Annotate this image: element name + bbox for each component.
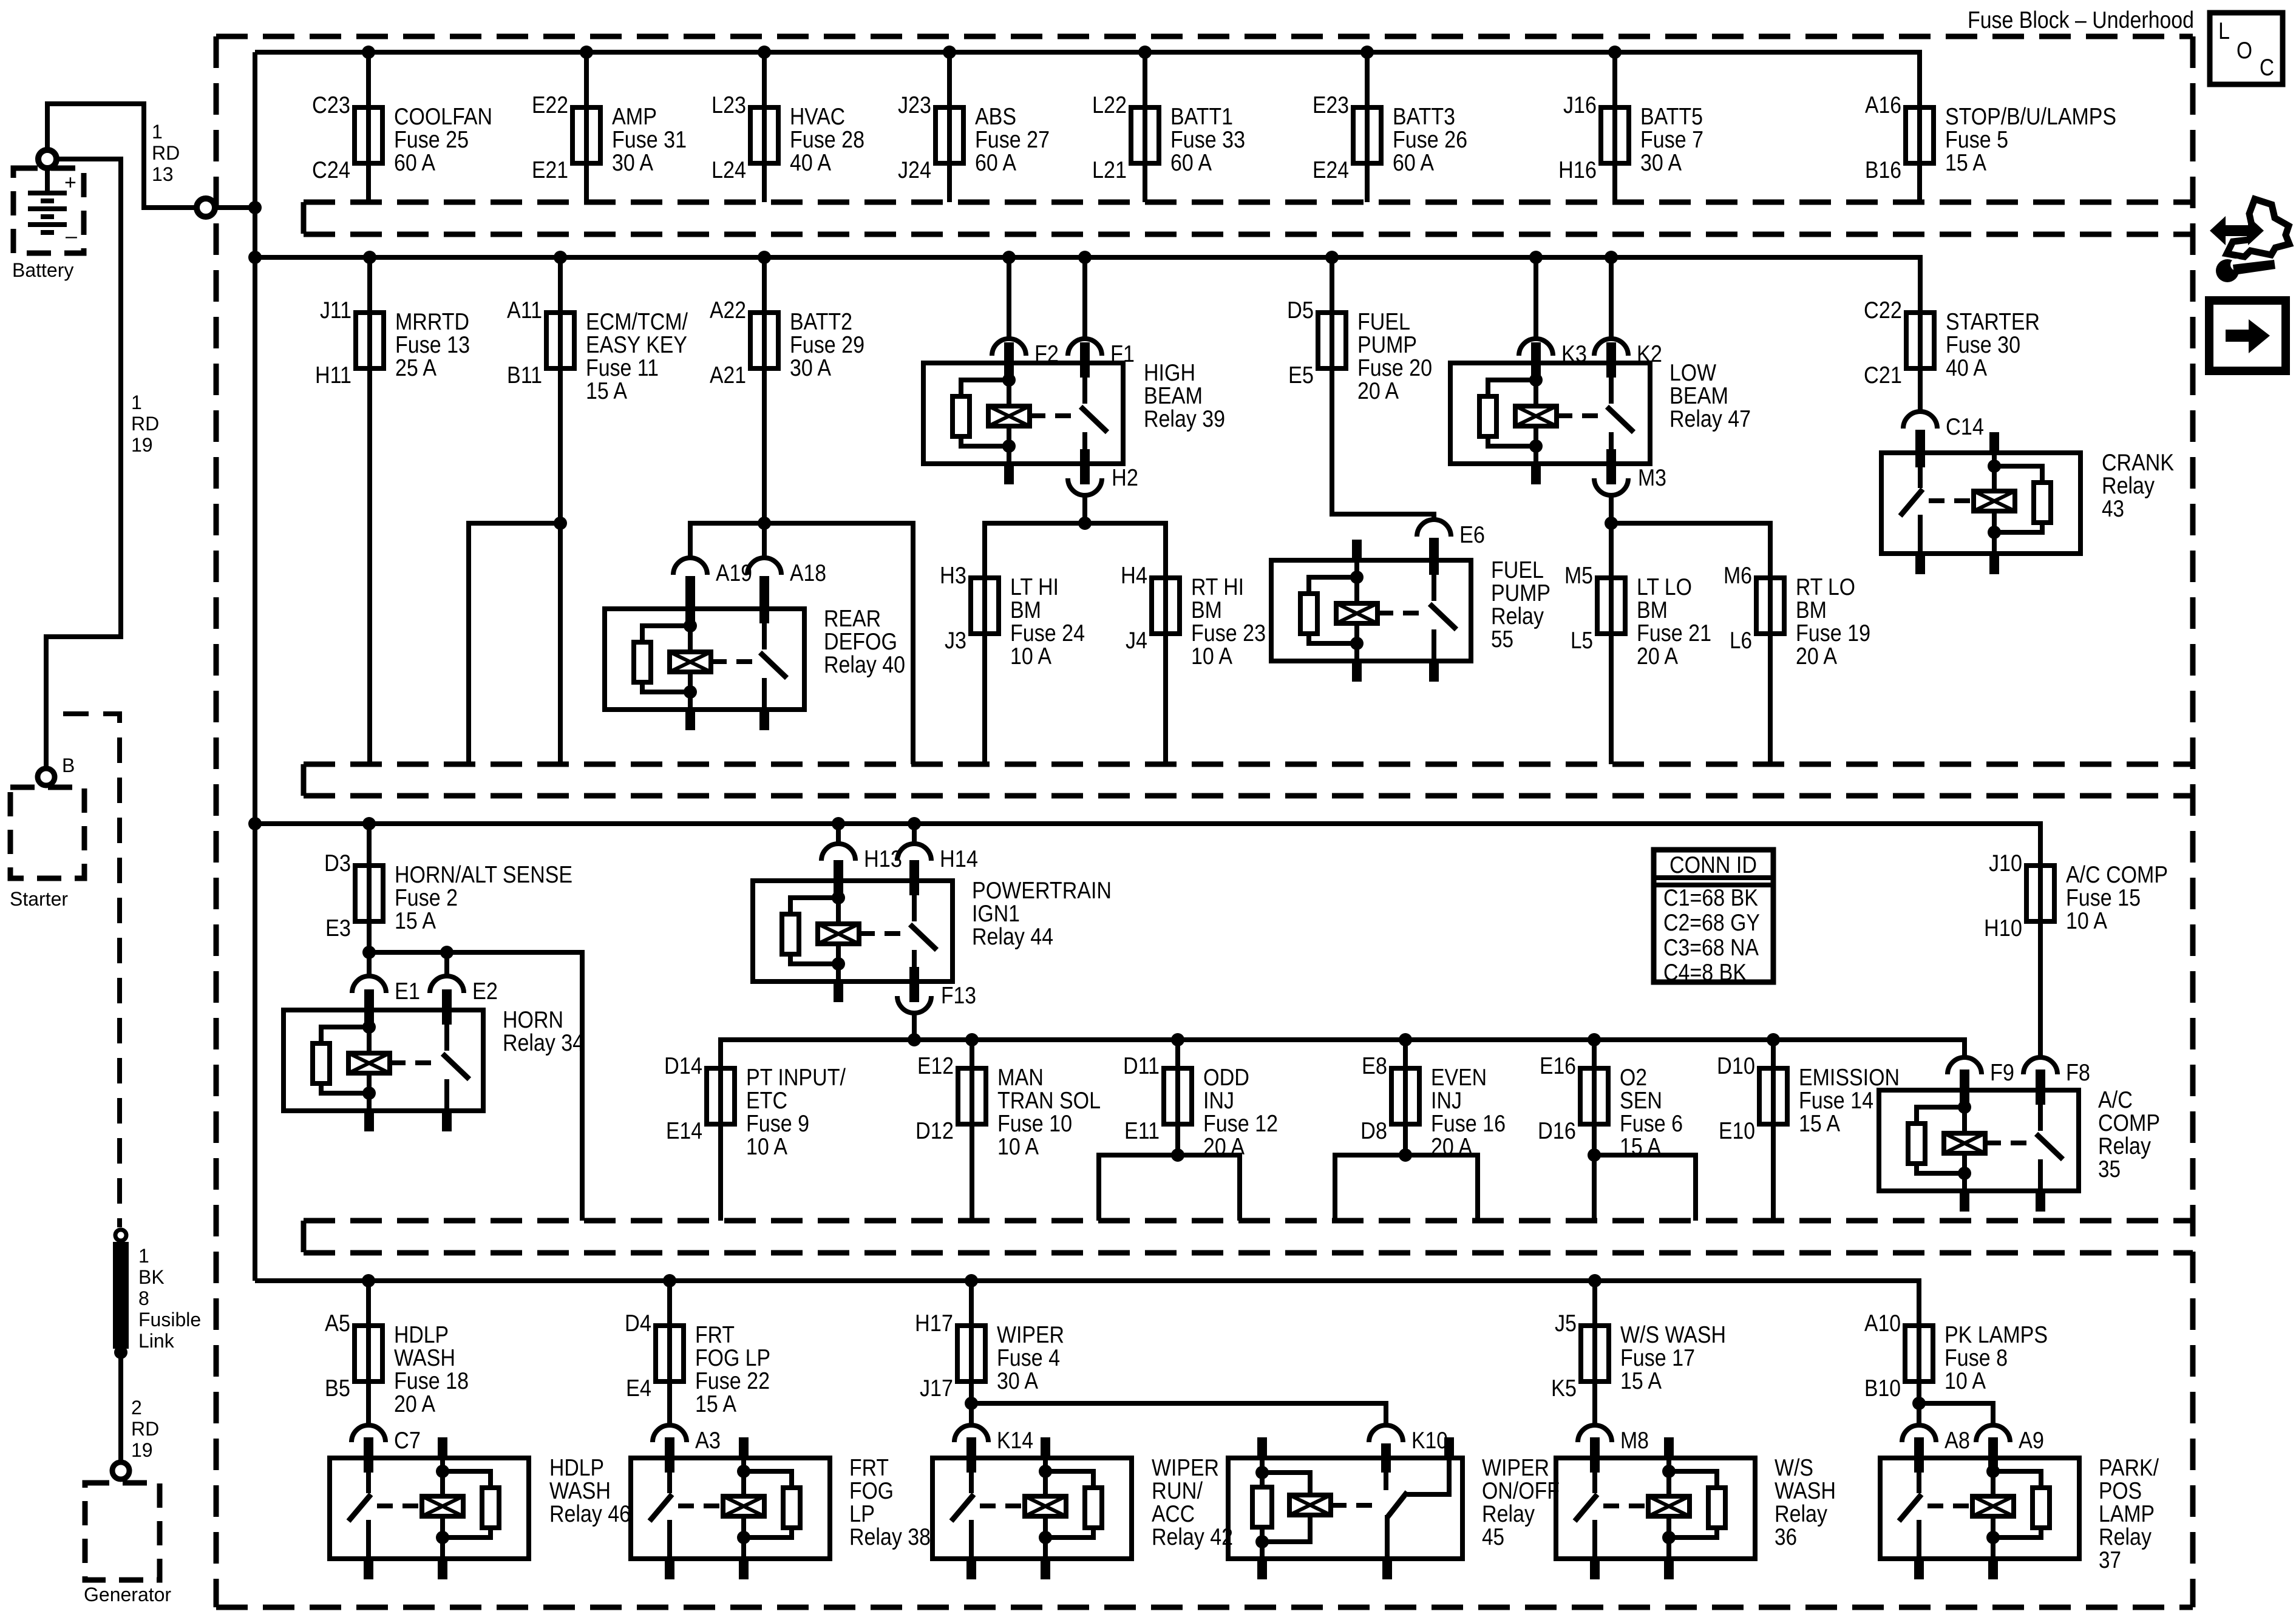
svg-text:Fuse 19: Fuse 19	[1796, 620, 1870, 646]
junction	[1588, 1274, 1601, 1287]
svg-text:A/C COMP: A/C COMP	[2066, 862, 2168, 888]
svg-text:E22: E22	[532, 92, 568, 118]
fuse Fuse 26 BATT3	[1313, 52, 1467, 202]
svg-text:PK LAMPS: PK LAMPS	[1944, 1322, 2048, 1348]
fuse body	[936, 107, 963, 163]
wire	[1917, 107, 1922, 202]
wire J17 to relays	[969, 1384, 974, 1428]
svg-text:E2: E2	[472, 978, 498, 1005]
fuse Fuse 17 W/S WASH	[1551, 1281, 1726, 1402]
svg-text:H10: H10	[1984, 915, 2022, 941]
wire	[1592, 1040, 1597, 1221]
fuse body	[1906, 313, 1934, 368]
svg-text:BM: BM	[1191, 597, 1222, 623]
svg-text:ECM/TCM/: ECM/TCM/	[586, 309, 688, 335]
svg-text:H14: H14	[940, 846, 978, 872]
svg-text:L5: L5	[1571, 628, 1593, 654]
svg-text:C22: C22	[1864, 297, 1902, 324]
svg-text:Relay 40: Relay 40	[824, 652, 905, 678]
relay box	[1556, 1458, 1755, 1559]
fuse Fuse 5 STOP/B/U/LAMPS	[1865, 92, 2116, 202]
junction	[362, 817, 376, 830]
svg-text:FOG LP: FOG LP	[695, 1345, 770, 1371]
svg-text:15 A: 15 A	[1945, 150, 1986, 176]
wire	[912, 1012, 917, 1040]
svg-text:BATT1: BATT1	[1170, 104, 1233, 130]
svg-text:RD: RD	[131, 1418, 159, 1440]
relay switch	[2038, 1090, 2043, 1131]
wire	[762, 257, 767, 368]
relay box	[1880, 1458, 2079, 1559]
svg-text:CONN ID: CONN ID	[1669, 852, 1757, 878]
svg-text:A22: A22	[710, 297, 746, 324]
fuse Fuse 16 EVEN INJ	[1360, 1040, 1506, 1160]
svg-text:Starter: Starter	[10, 888, 68, 910]
fuse block bus-bar strip 3 (dashed)	[304, 1221, 2193, 1253]
fusible link 1 BK 8	[113, 1242, 129, 1349]
junction	[362, 946, 376, 959]
svg-text:Fuse 10: Fuse 10	[997, 1111, 1072, 1137]
svg-text:LOW: LOW	[1669, 360, 1716, 386]
svg-text:FRT: FRT	[695, 1322, 735, 1348]
svg-text:HVAC: HVAC	[790, 104, 845, 130]
svg-text:PUMP: PUMP	[1357, 332, 1417, 358]
svg-text:TRAN SOL: TRAN SOL	[997, 1088, 1101, 1114]
svg-text:WASH: WASH	[394, 1345, 455, 1371]
relay coil	[1043, 1458, 1048, 1471]
connector K2	[1594, 257, 1662, 378]
svg-text:D8: D8	[1360, 1118, 1387, 1144]
generator dashed box	[85, 1483, 160, 1580]
svg-text:SEN: SEN	[1620, 1088, 1662, 1114]
svg-text:C2=68 GY: C2=68 GY	[1663, 910, 1760, 936]
svg-text:DEFOG: DEFOG	[824, 629, 897, 655]
wire	[1592, 1384, 1597, 1428]
coil-switch link	[1603, 1503, 1648, 1508]
relay box	[605, 609, 804, 710]
wire	[1609, 578, 1614, 764]
relay box	[1450, 363, 1650, 464]
connector A8	[1902, 1425, 1970, 1473]
svg-text:E8: E8	[1362, 1053, 1387, 1079]
fuse block bus-bar strip 1 (dashed)	[304, 202, 2193, 234]
svg-text:L23: L23	[712, 92, 746, 118]
coil-switch link	[1377, 611, 1428, 615]
svg-text:Fuse 12: Fuse 12	[1203, 1111, 1278, 1137]
junction	[1605, 251, 1618, 264]
fuse body	[1597, 578, 1625, 634]
svg-text:C21: C21	[1864, 362, 1902, 388]
junction	[1325, 251, 1339, 264]
svg-text:E10: E10	[1719, 1118, 1755, 1144]
svg-text:40 A: 40 A	[790, 150, 831, 176]
fuse block bus-bar strip 2 (dashed)	[304, 764, 2193, 796]
svg-text:Relay: Relay	[2102, 473, 2155, 499]
svg-text:30 A: 30 A	[997, 1368, 1038, 1394]
wire A21 to rear defog feed rail	[762, 367, 767, 523]
svg-text:E21: E21	[532, 157, 568, 183]
svg-text:K5: K5	[1551, 1375, 1577, 1402]
svg-text:C: C	[2260, 55, 2274, 81]
svg-text:H11: H11	[315, 362, 352, 388]
fuse body	[1601, 107, 1629, 163]
connector M8	[1578, 1425, 1649, 1473]
wire	[1365, 52, 1370, 202]
relay coil	[1962, 1090, 1967, 1133]
svg-text:M5: M5	[1564, 563, 1593, 589]
svg-text:Relay 46: Relay 46	[549, 1501, 631, 1527]
fuse Fuse 18 HDLP WASH	[325, 1281, 469, 1417]
relay switch	[1432, 560, 1436, 601]
fuse Fuse 13 MRRTD	[315, 257, 470, 764]
wire	[667, 1384, 672, 1428]
relay coil	[367, 1010, 372, 1053]
wire	[1592, 1281, 1597, 1381]
junction	[1767, 1033, 1780, 1046]
svg-text:40 A: 40 A	[1946, 355, 1987, 381]
svg-text:20 A: 20 A	[1796, 643, 1837, 670]
relay resistor	[1708, 1488, 1725, 1528]
fuse Fuse 23 RT HI BM	[1121, 563, 1266, 764]
svg-text:RT LO: RT LO	[1796, 574, 1855, 600]
svg-text:1: 1	[152, 121, 163, 143]
relay box	[923, 363, 1123, 464]
svg-text:60 A: 60 A	[1393, 150, 1434, 176]
fuse body	[750, 313, 778, 368]
fuse body	[355, 107, 382, 163]
wire	[558, 257, 563, 368]
wire low-beam output rail	[1611, 523, 1770, 577]
svg-text:RUN/: RUN/	[1152, 1478, 1203, 1504]
svg-text:Relay: Relay	[2099, 1524, 2152, 1550]
row3 switched rail (F13 output)	[721, 1040, 1965, 1068]
svg-text:19: 19	[131, 1439, 153, 1461]
svg-text:D4: D4	[625, 1310, 651, 1337]
fuse body	[1353, 107, 1381, 163]
fuse body	[1152, 578, 1180, 634]
junction	[965, 1033, 979, 1046]
svg-text:FUEL: FUEL	[1357, 309, 1410, 335]
svg-text:E14: E14	[666, 1118, 702, 1144]
svg-text:O: O	[2237, 38, 2252, 64]
fuse Fuse 27 ABS	[898, 52, 1050, 202]
svg-text:13: 13	[152, 163, 174, 185]
fuse body	[355, 1326, 382, 1381]
svg-text:Fuse 27: Fuse 27	[975, 127, 1050, 153]
fuse body	[1131, 107, 1159, 163]
svg-text:Fuse 31: Fuse 31	[612, 127, 687, 153]
fuse body	[2026, 866, 2054, 921]
LOC callout box	[2210, 13, 2283, 84]
fuse body	[1164, 1068, 1192, 1124]
fuse Fuse 24 LT HI BM	[940, 563, 1085, 764]
svg-text:D3: D3	[324, 850, 351, 876]
coil-switch link	[1557, 413, 1605, 418]
svg-text:H17: H17	[915, 1310, 953, 1337]
svg-text:WIPER: WIPER	[997, 1322, 1064, 1348]
svg-text:J4: J4	[1126, 628, 1147, 654]
relay coil	[440, 1458, 445, 1471]
junction	[1360, 46, 1374, 59]
svg-text:D16: D16	[1538, 1118, 1576, 1144]
svg-text:L22: L22	[1092, 92, 1127, 118]
svg-text:10 A: 10 A	[997, 1134, 1039, 1160]
svg-text:30 A: 30 A	[612, 150, 653, 176]
relay REAR DEFOG Relay 40	[605, 588, 905, 730]
svg-text:ON/OFF: ON/OFF	[1482, 1478, 1560, 1504]
svg-text:30 A: 30 A	[1640, 150, 1682, 176]
coil-switch link	[377, 1503, 422, 1508]
coil-switch link	[980, 1503, 1025, 1508]
relay resistor	[482, 1488, 499, 1528]
relay box	[1271, 560, 1471, 661]
connector A19	[673, 558, 752, 623]
relay resistor	[1908, 1124, 1925, 1164]
wire H10 to F8	[2038, 924, 2043, 1059]
svg-text:60 A: 60 A	[975, 150, 1016, 176]
wire	[762, 52, 767, 202]
junction	[362, 1274, 375, 1287]
svg-text:–: –	[66, 225, 77, 248]
svg-text:F8: F8	[2066, 1060, 2090, 1086]
relay coil	[1533, 363, 1538, 406]
fuse body	[971, 578, 999, 634]
svg-text:37: 37	[2099, 1547, 2121, 1573]
junction	[1399, 1033, 1412, 1046]
svg-text:20 A: 20 A	[1357, 378, 1399, 404]
svg-text:8: 8	[138, 1287, 149, 1309]
relay switch	[366, 1458, 371, 1493]
svg-text:FRT: FRT	[849, 1455, 889, 1481]
wire	[969, 1281, 974, 1381]
fuse Fuse 6 O2 SEN	[1538, 1040, 1683, 1221]
relay resistor	[2034, 483, 2051, 523]
svg-text:E3: E3	[325, 915, 351, 941]
main feed bus (left vertical)	[253, 52, 257, 1281]
relay coil	[836, 881, 841, 924]
fuse Fuse 11 ECM/TCM/EASY KEY	[507, 257, 688, 404]
fuse Fuse 2 HORN/ALT SENSE	[324, 824, 572, 941]
wire	[1918, 313, 1923, 368]
svg-text:Fuse 20: Fuse 20	[1357, 355, 1432, 381]
svg-text:10 A: 10 A	[746, 1134, 787, 1160]
fuse body	[572, 107, 600, 163]
svg-text:ETC: ETC	[746, 1088, 787, 1114]
wire	[367, 257, 372, 764]
svg-text:Fuse 29: Fuse 29	[790, 332, 864, 358]
wire	[1330, 257, 1334, 368]
svg-text:POS: POS	[2099, 1478, 2142, 1504]
wire	[1612, 52, 1617, 202]
fuse Fuse 31 AMP	[532, 52, 687, 202]
svg-text:D5: D5	[1287, 297, 1314, 324]
svg-text:E5: E5	[1288, 362, 1314, 388]
relay box	[753, 881, 953, 981]
wire	[667, 1281, 672, 1381]
junction	[965, 1274, 978, 1287]
wire	[584, 52, 589, 202]
svg-text:Fuse 11: Fuse 11	[586, 355, 659, 381]
svg-text:REAR: REAR	[824, 606, 881, 632]
svg-text:POWERTRAIN: POWERTRAIN	[972, 878, 1112, 904]
svg-text:D11: D11	[1123, 1053, 1160, 1079]
svg-text:L24: L24	[712, 157, 746, 183]
relay box	[1879, 1090, 2079, 1191]
svg-text:M8: M8	[1620, 1428, 1649, 1454]
fuse Fuse 8 PK LAMPS	[1864, 1310, 2048, 1402]
junction	[1912, 1397, 1926, 1410]
CONN ID table	[1654, 850, 1773, 986]
junction	[943, 46, 956, 59]
svg-text:STOP/B/U/LAMPS: STOP/B/U/LAMPS	[1945, 104, 2116, 130]
starter B terminal ring	[38, 768, 55, 785]
svg-text:A16: A16	[1865, 92, 1901, 118]
junction	[114, 1346, 127, 1359]
fuse body	[1906, 107, 1934, 163]
coil-switch link	[678, 1503, 723, 1508]
svg-text:CRANK: CRANK	[2102, 450, 2174, 476]
row3 supply bus	[255, 824, 2040, 866]
svg-text:15 A: 15 A	[1620, 1368, 1662, 1394]
fuse Fuse 33 BATT1	[1092, 52, 1245, 202]
arrow-in-box icon	[2209, 300, 2286, 371]
svg-text:L21: L21	[1092, 157, 1127, 183]
svg-text:Fuse 15: Fuse 15	[2066, 885, 2141, 911]
svg-text:F13: F13	[941, 983, 976, 1009]
fuse Fuse 7 BATT5	[1558, 52, 1703, 202]
relay switch	[1592, 1458, 1597, 1493]
fuse body	[355, 866, 383, 921]
svg-text:RD: RD	[131, 413, 159, 435]
relay coil	[741, 1458, 746, 1471]
fuse body	[1581, 1326, 1609, 1381]
junction	[1171, 1033, 1184, 1046]
connector K10	[1369, 1425, 1448, 1473]
svg-text:E1: E1	[395, 978, 420, 1005]
wire high-beam output rail	[985, 523, 1166, 577]
wire	[1609, 494, 1614, 523]
svg-text:Relay 38: Relay 38	[849, 1524, 931, 1550]
junction	[965, 1397, 978, 1410]
svg-text:C7: C7	[394, 1428, 421, 1454]
relay LOW BEAM Relay 47	[1450, 342, 1751, 484]
svg-text:HORN/ALT SENSE: HORN/ALT SENSE	[395, 862, 572, 888]
svg-text:RT HI: RT HI	[1191, 574, 1244, 600]
svg-text:60 A: 60 A	[394, 150, 435, 176]
svg-text:AMP: AMP	[612, 104, 657, 130]
svg-text:A11: A11	[507, 297, 542, 324]
wire	[366, 1281, 371, 1381]
relay box	[1881, 453, 2080, 554]
relay box	[1228, 1458, 1462, 1559]
junction	[1138, 46, 1152, 59]
coil-switch link	[390, 1060, 441, 1065]
junction	[362, 46, 375, 59]
svg-text:BEAM: BEAM	[1669, 383, 1728, 409]
svg-text:B5: B5	[325, 1375, 350, 1402]
connector A18	[747, 558, 826, 623]
svg-text:15 A: 15 A	[395, 908, 436, 934]
svg-text:Fuse 8: Fuse 8	[1944, 1345, 2008, 1371]
wire	[2038, 866, 2043, 921]
relay switch	[969, 1458, 974, 1493]
starter dashed box	[10, 787, 84, 878]
relay resistor	[1479, 396, 1496, 436]
svg-text:Fuse 22: Fuse 22	[695, 1368, 770, 1394]
fuse body	[1391, 1068, 1419, 1124]
svg-text:Relay 47: Relay 47	[1669, 406, 1751, 432]
svg-text:C23: C23	[312, 92, 350, 118]
wire	[367, 824, 372, 921]
relay switch	[912, 881, 917, 921]
relay HORN Relay 34	[284, 989, 584, 1131]
svg-text:B16: B16	[1865, 157, 1901, 183]
junction	[1171, 1148, 1184, 1162]
svg-text:IGN1: IGN1	[972, 901, 1020, 927]
svg-text:Fuse 9: Fuse 9	[746, 1111, 809, 1137]
wire	[1917, 1326, 1921, 1381]
svg-text:1: 1	[131, 392, 142, 413]
svg-text:J24: J24	[898, 157, 931, 183]
wire even-inj splice legs	[1403, 1127, 1408, 1155]
svg-text:A10: A10	[1864, 1310, 1901, 1337]
relay FUEL PUMP Relay 55	[1271, 540, 1550, 682]
fuse body	[1905, 1326, 1933, 1381]
relay switch	[444, 1010, 449, 1051]
svg-text:D10: D10	[1717, 1053, 1755, 1079]
wire	[1771, 1040, 1776, 1221]
relay WIPER ON/OFF Relay 45	[1228, 1437, 1560, 1579]
fuse Fuse 12 ODD INJ	[1123, 1040, 1278, 1160]
svg-text:RD: RD	[152, 142, 180, 164]
wire 1 RD 19 battery to starter	[46, 159, 121, 767]
svg-text:J5: J5	[1555, 1310, 1577, 1337]
junction	[1605, 517, 1618, 530]
connector K3	[1519, 257, 1587, 378]
fuse Fuse 14 EMISSION	[1717, 1040, 1900, 1221]
fuse body	[546, 313, 574, 368]
relay resistor	[782, 914, 799, 954]
svg-text:Fuse 4: Fuse 4	[997, 1345, 1060, 1371]
relay resistor	[2033, 1488, 2050, 1528]
svg-text:C1=68 BK: C1=68 BK	[1663, 885, 1758, 911]
svg-text:PUMP: PUMP	[1491, 580, 1550, 606]
row1 supply bus	[255, 52, 1920, 107]
connector C14	[1903, 412, 1984, 467]
svg-text:A8: A8	[1944, 1428, 1970, 1454]
connector F2	[992, 257, 1059, 378]
svg-text:WIPER: WIPER	[1152, 1455, 1219, 1481]
generator terminal ring	[112, 1462, 129, 1479]
junction	[1078, 517, 1092, 530]
fuse Fuse 20 FUEL PUMP	[1287, 257, 1432, 404]
svg-text:10 A: 10 A	[1010, 643, 1051, 670]
svg-text:Relay: Relay	[1491, 603, 1544, 629]
connector A3	[653, 1425, 721, 1473]
navigation icon: double arrow with outline shape and wrench	[2210, 199, 2289, 282]
svg-text:E24: E24	[1313, 157, 1349, 183]
svg-text:B10: B10	[1864, 1375, 1901, 1402]
battery B+ terminal ring	[38, 150, 56, 168]
relay coil	[1992, 453, 1997, 466]
connector E1	[352, 976, 420, 1025]
wire	[1768, 578, 1773, 764]
svg-text:W/S: W/S	[1775, 1455, 1813, 1481]
wire	[1007, 257, 1011, 341]
svg-text:C14: C14	[1946, 414, 1984, 440]
svg-text:E16: E16	[1540, 1053, 1576, 1079]
relay WIPER RUN/ACC Relay 42	[932, 1437, 1233, 1579]
